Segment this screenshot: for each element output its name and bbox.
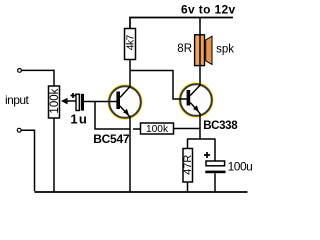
wire BC547 emitter to 0v rail [129,116,131,193]
speaker SPK body [195,35,205,66]
capacitor C2 100u plus sign [204,152,210,158]
wire capacitor to BC547 base [84,101,117,103]
capacitor C2 100u positive plate [206,161,225,166]
svg-text:spk: spk [216,44,234,56]
wire 100u bottom to 0v rail [214,173,216,192]
speaker cone [206,36,212,64]
wire emitter split bar [188,138,216,140]
svg-text:47R: 47R [182,155,194,175]
wire supply rail down through speaker to BC338 collector [199,18,201,87]
wire 47R bottom to 0v rail [187,182,189,192]
wire base node down to feedback 100k [95,102,141,130]
wire BC338 emitter down to split [199,113,201,139]
svg-text:input: input [5,93,29,107]
svg-text:4k7: 4k7 [125,34,136,50]
wire split to 100u [214,139,216,162]
svg-text:8R: 8R [177,43,192,55]
wire top supply rail with corner down to 4k7 [130,18,233,29]
svg-text:100k: 100k [146,124,169,135]
wire bottom 0v rail [35,191,248,193]
resistor R4 47R [182,149,194,183]
resistor R3 100k feedback [141,123,174,135]
capacitor C1 1u negative plate [81,94,84,111]
capacitor C1 1u positive plate [76,94,79,110]
wire 4k7 bottom to BC547 collector [129,60,131,88]
transistor Q2 BC338 [179,83,212,116]
wire split to 47R [187,139,189,149]
svg-text:6v to 12v: 6v to 12v [181,3,236,17]
node input terminal bottom [17,128,21,132]
svg-text:1u: 1u [70,112,88,127]
svg-text:BC547: BC547 [93,132,130,146]
resistor R1 4k7 [125,29,137,60]
wire 100k feedback to BC338 emitter [174,128,201,130]
svg-text:100k: 100k [49,88,61,113]
signal arrow into input node [61,98,68,105]
wire input top to 100k [22,70,54,86]
wire arrow to capacitor [67,100,76,102]
svg-text:100u: 100u [228,160,253,174]
transistor Q1 BC547 [108,85,141,118]
node input terminal top [18,69,22,73]
wire input bottom to 0v rail [22,130,35,191]
wire BC547 collector to BC338 base [130,71,187,100]
resistor R2 100k input load [49,86,62,118]
capacitor C2 100u negative plate [205,171,225,174]
wire 100k bottom to 0v rail [53,118,55,192]
capacitor C1 1u plus sign [71,93,76,98]
svg-text:BC338: BC338 [203,120,238,132]
